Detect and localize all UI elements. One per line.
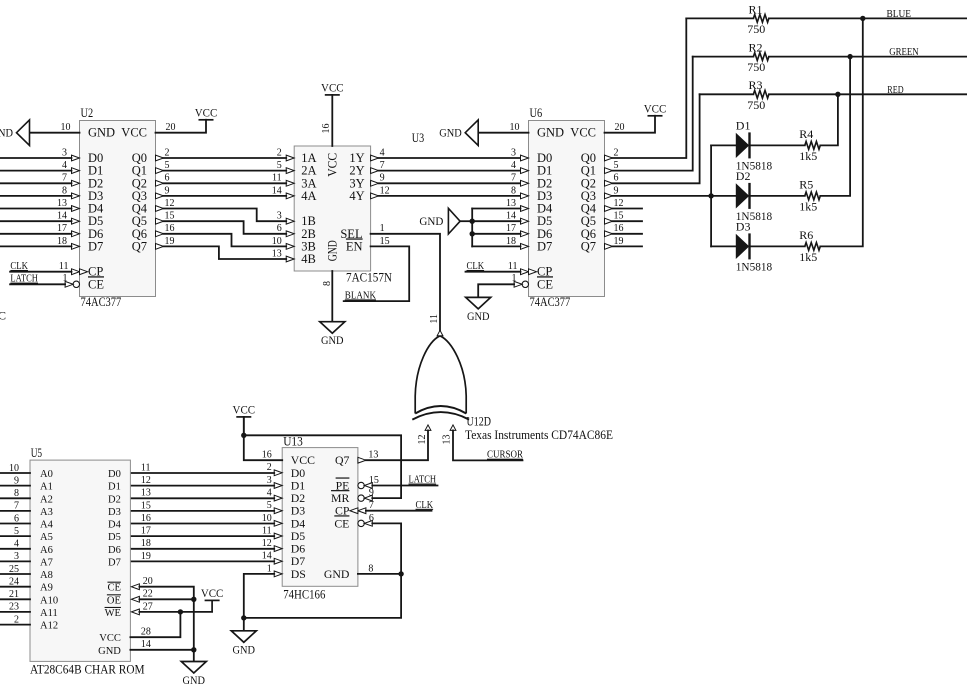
svg-text:2: 2: [614, 147, 619, 158]
wire U2 Q3 to U3 4A: [164, 195, 287, 197]
wire XOR output to U3 SEL: [371, 234, 440, 330]
wire address bus A0: [0, 472, 30, 474]
svg-text:16: 16: [614, 223, 624, 234]
diode D3 1N5818: [711, 245, 736, 247]
wire address bus A10: [0, 598, 30, 600]
svg-text:4: 4: [62, 160, 67, 171]
svg-text:4: 4: [511, 160, 516, 171]
diode D2 1N5818: [736, 184, 748, 207]
wire VCC to U13 pin 16: [244, 417, 282, 460]
wire CLK to U2 CP: [10, 271, 71, 273]
wire U2 Q5 to U3 2B staircase: [164, 221, 287, 234]
svg-text:9: 9: [165, 185, 170, 196]
svg-text:D4: D4: [108, 520, 122, 531]
svg-text:VCC: VCC: [233, 403, 256, 417]
svg-text:DS: DS: [291, 567, 306, 581]
svg-text:5: 5: [267, 500, 272, 511]
svg-text:2: 2: [165, 147, 170, 158]
svg-text:6: 6: [614, 173, 619, 184]
svg-text:12: 12: [141, 475, 151, 486]
svg-text:74HC166: 74HC166: [283, 588, 325, 602]
svg-text:D1: D1: [736, 118, 751, 132]
svg-text:18: 18: [506, 236, 516, 247]
wire U2 Q4 to U3 1B staircase: [164, 209, 287, 222]
svg-text:R3: R3: [749, 78, 763, 92]
VCC symbol at U13: [236, 417, 251, 435]
wire U5 pin 28 to VCC: [130, 612, 180, 637]
svg-text:750: 750: [747, 22, 765, 36]
wire address bus A7: [0, 560, 30, 562]
svg-text:74AC377: 74AC377: [81, 295, 122, 309]
wire U2 pin20 VCC: [156, 120, 207, 133]
wire U13 DS to ground: [244, 574, 274, 631]
svg-text:750: 750: [747, 98, 765, 112]
IC U5 AT28C64B CHAR ROM body: [30, 460, 130, 661]
wire U13 ground return to GND symbol: [244, 574, 401, 618]
svg-text:GND: GND: [324, 567, 350, 581]
svg-text:GND: GND: [183, 673, 206, 687]
svg-text:4: 4: [380, 147, 385, 158]
svg-text:15: 15: [380, 236, 390, 247]
svg-text:1N5818: 1N5818: [736, 260, 772, 274]
junction U13 pin8/CE: [398, 571, 403, 576]
XOR input pin 13 arrow: [450, 425, 456, 431]
svg-text:VCC: VCC: [121, 126, 147, 140]
svg-text:R5: R5: [799, 178, 813, 192]
svg-text:16: 16: [262, 450, 272, 461]
svg-text:GREEN: GREEN: [889, 47, 919, 58]
svg-text:74AC377: 74AC377: [530, 295, 571, 309]
svg-text:CE: CE: [107, 583, 120, 594]
wire U5 OE join: [139, 598, 193, 600]
svg-text:GND: GND: [419, 214, 443, 228]
wire GND bus to U6 D5: [472, 220, 520, 222]
svg-text:D3: D3: [108, 507, 121, 518]
wire U5 D3 to U13 D3: [130, 510, 274, 512]
svg-text:11: 11: [141, 462, 151, 473]
svg-text:GND: GND: [321, 333, 344, 347]
svg-text:28: 28: [141, 627, 151, 638]
svg-text:17: 17: [506, 223, 516, 234]
svg-text:16: 16: [141, 513, 151, 524]
svg-text:9: 9: [369, 487, 374, 498]
wire U6 Q3 to diode anodes: [613, 195, 737, 197]
svg-text:A5: A5: [40, 532, 53, 543]
svg-text:D2: D2: [736, 169, 751, 183]
resistor R6 1k5: [751, 245, 805, 247]
svg-text:A3: A3: [40, 507, 53, 518]
svg-text:A1: A1: [40, 482, 53, 493]
XOR output pin 11 arrow: [437, 330, 443, 336]
junction GND pin14: [191, 647, 196, 652]
svg-text:8: 8: [368, 563, 373, 574]
wire U6 CE to ground: [478, 284, 514, 297]
svg-text:15: 15: [141, 500, 151, 511]
GND symbol below U13: [231, 631, 256, 643]
svg-text:20: 20: [615, 122, 625, 133]
svg-text:12: 12: [614, 198, 624, 209]
GND symbol at U3 pin 8: [320, 322, 345, 334]
svg-text:8: 8: [511, 185, 516, 196]
resistor R4 1k5: [751, 144, 805, 146]
svg-text:CLK: CLK: [10, 261, 28, 272]
wire address bus A9: [0, 586, 30, 588]
wire CLK to U6 CP: [466, 271, 521, 273]
svg-text:VCC: VCC: [644, 102, 667, 116]
svg-text:A10: A10: [40, 595, 58, 606]
junction D5 row: [470, 219, 475, 224]
svg-text:D7: D7: [108, 557, 121, 568]
svg-text:RED: RED: [887, 85, 904, 96]
svg-text:13: 13: [442, 435, 453, 445]
wire U5 D1 to U13 D1: [130, 485, 274, 487]
wire U5 D7 to U13 D7: [130, 560, 274, 562]
svg-text:2: 2: [267, 462, 272, 473]
wire data bus bit 3 into U2 D3: [0, 195, 72, 197]
svg-text:1k5: 1k5: [799, 199, 817, 213]
svg-text:5: 5: [277, 160, 282, 171]
VCC symbol at U3 pin 16: [325, 94, 340, 96]
svg-text:6: 6: [165, 173, 170, 184]
svg-text:10: 10: [262, 513, 272, 524]
svg-text:A11: A11: [40, 608, 58, 619]
wire U5 WE to VCC: [139, 611, 212, 613]
resistor R3 750 on RED rail: [700, 93, 754, 95]
svg-text:GND: GND: [233, 642, 256, 656]
wire U3 4Y to U6 D3: [379, 195, 521, 197]
junction WE/pin28: [178, 609, 183, 614]
XOR input pin 12 arrow: [425, 425, 431, 431]
svg-text:4: 4: [267, 487, 272, 498]
junction Q3 anode bus: [708, 193, 713, 198]
wire U5 D5 to U13 D5: [130, 535, 274, 537]
svg-text:12: 12: [380, 185, 390, 196]
svg-text:20: 20: [143, 576, 153, 587]
svg-text:11: 11: [262, 525, 272, 536]
VCC symbol at U2 pin 20: [199, 119, 214, 121]
IC U6 74AC377 body: [529, 121, 605, 297]
svg-text:4Y: 4Y: [349, 189, 364, 203]
wire U2 Q1 to U3 2A: [164, 170, 287, 172]
svg-text:5: 5: [165, 160, 170, 171]
svg-text:16: 16: [321, 124, 332, 134]
svg-text:14: 14: [272, 185, 282, 196]
U3 pin 8 GND bottom: [331, 271, 333, 322]
svg-text:R4: R4: [799, 127, 813, 141]
wire U5 D4 to U13 D4: [130, 523, 274, 525]
svg-text:VCC: VCC: [325, 153, 339, 177]
IC U3 7AC157N multiplexer body: [294, 146, 370, 271]
wire U13 Q7 to XOR pin 12: [366, 430, 428, 460]
svg-text:A2: A2: [40, 494, 53, 505]
junction D6 row: [470, 231, 475, 236]
svg-text:8: 8: [62, 185, 67, 196]
wire U2 Q7 to U3 4B staircase: [164, 246, 287, 259]
svg-text:GND: GND: [537, 126, 564, 140]
svg-text:11: 11: [429, 314, 440, 324]
resistor R1 750 on BLUE rail: [686, 17, 753, 19]
wire GND bus to U6 D6: [472, 233, 520, 235]
svg-text:7: 7: [511, 173, 516, 184]
wire U5 CE to ground: [139, 587, 193, 650]
wire address bus A5: [0, 535, 30, 537]
svg-text:A4: A4: [40, 520, 54, 531]
resistor R5 1k5: [751, 195, 805, 197]
svg-text:10: 10: [510, 122, 520, 133]
XOR gate U12D body: [412, 336, 469, 420]
svg-text:18: 18: [57, 236, 67, 247]
svg-text:13: 13: [57, 198, 67, 209]
svg-text:1: 1: [267, 563, 272, 574]
U3 pin 16 VCC top: [331, 95, 333, 146]
svg-text:Q7: Q7: [335, 453, 350, 467]
svg-text:Q7: Q7: [581, 239, 596, 253]
svg-text:19: 19: [614, 236, 624, 247]
wire U5 pin 14 ground: [130, 650, 193, 662]
svg-text:12: 12: [262, 538, 272, 549]
svg-text:4A: 4A: [301, 189, 316, 203]
wire CLK to U13 CP: [366, 510, 432, 512]
svg-text:13: 13: [141, 488, 151, 499]
wire U5 D0 to U13 D0: [130, 472, 274, 474]
svg-text:D7: D7: [537, 239, 552, 253]
svg-text:VCC: VCC: [321, 81, 344, 95]
junction BLUE rail: [860, 16, 865, 21]
wire XOR pin 13 to CURSOR: [453, 430, 523, 460]
wire data bus bit 7 into U2 D7: [0, 245, 72, 247]
svg-text:5: 5: [614, 160, 619, 171]
svg-text:13: 13: [272, 248, 282, 259]
svg-text:A7: A7: [40, 557, 53, 568]
wire U13 CE to GND net: [372, 523, 401, 574]
junction GREEN rail: [847, 54, 852, 59]
svg-text:17: 17: [141, 526, 151, 537]
wire address bus A1: [0, 485, 30, 487]
svg-text:VCC: VCC: [201, 586, 224, 600]
wire address bus A4: [0, 523, 30, 525]
svg-text:19: 19: [141, 551, 151, 562]
svg-text:GND: GND: [325, 240, 339, 261]
U3 EN wire to BLANK label: [344, 246, 410, 301]
ground flag at U6 pin 10: [465, 120, 478, 146]
svg-text:LATCH: LATCH: [409, 475, 437, 486]
svg-text:1: 1: [380, 223, 385, 234]
svg-text:R1: R1: [749, 2, 763, 16]
wire U3 3Y to U6 D2: [379, 182, 521, 184]
svg-text:9: 9: [614, 185, 619, 196]
svg-text:VCC: VCC: [570, 126, 596, 140]
svg-text:C: C: [0, 309, 6, 323]
wire address bus A12: [0, 624, 30, 626]
svg-text:CE: CE: [537, 277, 553, 291]
VCC symbol at U5 WE: [205, 600, 220, 612]
svg-text:GND: GND: [98, 646, 121, 657]
svg-text:22: 22: [143, 589, 153, 600]
svg-text:GND: GND: [88, 126, 115, 140]
svg-text:1k5: 1k5: [799, 250, 817, 264]
junction DS ground: [241, 615, 246, 620]
junction OE: [191, 597, 196, 602]
svg-text:14: 14: [262, 551, 272, 562]
svg-text:U12D: U12D: [467, 414, 492, 428]
svg-text:D6: D6: [108, 545, 121, 556]
svg-text:Q7: Q7: [132, 239, 147, 253]
diode D1 1N5818: [711, 144, 736, 146]
svg-text:27: 27: [143, 601, 153, 612]
svg-text:VCC: VCC: [99, 633, 121, 644]
svg-text:A6: A6: [40, 545, 53, 556]
wire U3 2Y to U6 D1: [379, 170, 521, 172]
VCC symbol at U6 pin 20: [648, 115, 663, 117]
wire VCC to U13 MR: [244, 435, 401, 498]
svg-text:GND: GND: [467, 309, 490, 323]
wire address bus A3: [0, 510, 30, 512]
svg-text:10: 10: [61, 122, 71, 133]
svg-text:17: 17: [57, 223, 67, 234]
wire stub U6 Q7: [613, 245, 643, 247]
wire data bus bit 5 into U2 D5: [0, 220, 72, 222]
svg-text:EN: EN: [346, 239, 363, 253]
GND symbol below U5: [181, 662, 206, 674]
wire data bus bit 0 into U2 D0: [0, 157, 72, 159]
svg-text:10: 10: [272, 236, 282, 247]
svg-text:15: 15: [165, 211, 175, 222]
svg-text:D2: D2: [108, 494, 121, 505]
svg-text:GND: GND: [439, 126, 462, 140]
svg-text:8: 8: [322, 281, 333, 286]
IC U13 74HC166 shift register body: [282, 448, 358, 587]
ground flag at U2 pin 10: [17, 120, 30, 146]
svg-text:13: 13: [368, 450, 378, 461]
svg-text:D0: D0: [108, 469, 121, 480]
svg-text:20: 20: [166, 122, 176, 133]
svg-text:VCC: VCC: [195, 106, 218, 120]
svg-text:4B: 4B: [301, 252, 316, 266]
svg-text:15: 15: [369, 475, 379, 486]
svg-text:AT28C64B CHAR ROM: AT28C64B CHAR ROM: [30, 662, 145, 676]
junction VCC branch: [241, 433, 246, 438]
wire stub U6 Q6: [613, 233, 643, 235]
svg-text:A9: A9: [40, 583, 53, 594]
IC U2 74AC377 body: [80, 121, 156, 297]
svg-text:3: 3: [62, 147, 67, 158]
svg-text:12: 12: [417, 435, 428, 445]
svg-text:R2: R2: [749, 41, 763, 55]
svg-text:9: 9: [380, 173, 385, 184]
svg-text:7: 7: [62, 173, 67, 184]
svg-text:U3: U3: [412, 131, 424, 145]
svg-text:D7: D7: [88, 239, 103, 253]
svg-text:D5: D5: [108, 532, 121, 543]
svg-text:11: 11: [508, 261, 518, 272]
wire address bus A8: [0, 573, 30, 575]
wire U2 Q6 to U3 3B staircase: [164, 234, 287, 247]
svg-text:7: 7: [369, 500, 374, 511]
wire U6 pin20 VCC: [605, 116, 656, 133]
wire U6 pin10 to GND flag: [478, 132, 528, 134]
svg-text:A8: A8: [40, 570, 53, 581]
svg-text:6: 6: [277, 223, 282, 234]
svg-text:GND: GND: [0, 126, 13, 140]
wire ground flag to bus: [460, 220, 472, 222]
svg-text:U2: U2: [81, 106, 94, 120]
wire address bus A6: [0, 548, 30, 550]
svg-text:A0: A0: [40, 469, 53, 480]
wire address bus A2: [0, 497, 30, 499]
svg-text:CLK: CLK: [416, 500, 434, 511]
svg-text:CURSOR: CURSOR: [487, 450, 523, 461]
svg-text:750: 750: [747, 60, 765, 74]
svg-text:BLUE: BLUE: [887, 9, 912, 20]
wire stub U6 Q5: [613, 220, 643, 222]
svg-text:2: 2: [277, 147, 282, 158]
svg-text:18: 18: [141, 538, 151, 549]
svg-text:CE: CE: [88, 277, 104, 291]
svg-text:U5: U5: [31, 446, 42, 460]
wire U6 Q0 up to BLUE rail: [613, 18, 687, 158]
svg-text:3: 3: [267, 475, 272, 486]
svg-text:1: 1: [63, 273, 68, 284]
wire U2 pin10 to GND flag: [30, 132, 80, 134]
wire GND bus vertical to U6 D4-D7: [471, 209, 473, 247]
svg-text:3: 3: [511, 147, 516, 158]
svg-text:12: 12: [165, 198, 175, 209]
svg-text:WE: WE: [105, 608, 121, 619]
wire U2 Q0 to U3 1A: [164, 157, 287, 159]
wire GND bus to U6 D7: [472, 245, 520, 247]
svg-text:14: 14: [506, 211, 516, 222]
wire U5 D6 to U13 D6: [130, 548, 274, 550]
wire address bus A11: [0, 611, 30, 613]
resistor R2 750 on GREEN rail: [693, 56, 754, 58]
svg-text:3: 3: [277, 211, 282, 222]
junction RED rail: [835, 92, 840, 97]
svg-text:U13: U13: [283, 434, 303, 448]
wire U3 1Y to U6 D0: [379, 157, 521, 159]
svg-text:OE: OE: [107, 595, 121, 606]
wire stub U6 Q4: [613, 208, 643, 210]
svg-text:19: 19: [165, 236, 175, 247]
svg-text:D3: D3: [736, 219, 751, 233]
svg-text:15: 15: [614, 211, 624, 222]
svg-text:1: 1: [512, 273, 517, 284]
svg-text:14: 14: [57, 211, 67, 222]
svg-text:1k5: 1k5: [799, 149, 817, 163]
GND symbol at U6 CE: [466, 297, 491, 309]
svg-text:LATCH: LATCH: [10, 274, 38, 285]
svg-text:CE: CE: [334, 516, 349, 530]
svg-text:13: 13: [506, 198, 516, 209]
wire data bus bit 6 into U2 D6: [0, 233, 72, 235]
svg-text:6: 6: [369, 513, 374, 524]
wire LATCH to U2 CE: [10, 283, 65, 285]
svg-text:11: 11: [272, 173, 282, 184]
wire GND bus to U6 D4: [472, 208, 520, 210]
wire U6 Q1 up to GREEN rail: [613, 57, 693, 171]
svg-text:CLK: CLK: [467, 261, 485, 272]
svg-text:Texas Instruments CD74AC86E: Texas Instruments CD74AC86E: [465, 428, 613, 442]
svg-text:11: 11: [59, 261, 69, 272]
wire U13 pin 8 GND: [358, 573, 401, 575]
wire U13 PE to LATCH: [372, 485, 437, 487]
svg-text:7: 7: [380, 160, 385, 171]
wire U2 Q2 to U3 3A: [164, 182, 287, 184]
wire data bus bit 2 into U2 D2: [0, 182, 72, 184]
wire U5 D2 to U13 D2: [130, 497, 274, 499]
ground flag at U6 D4-D7 bus: [448, 208, 460, 234]
svg-text:14: 14: [141, 639, 151, 650]
svg-text:16: 16: [165, 223, 175, 234]
